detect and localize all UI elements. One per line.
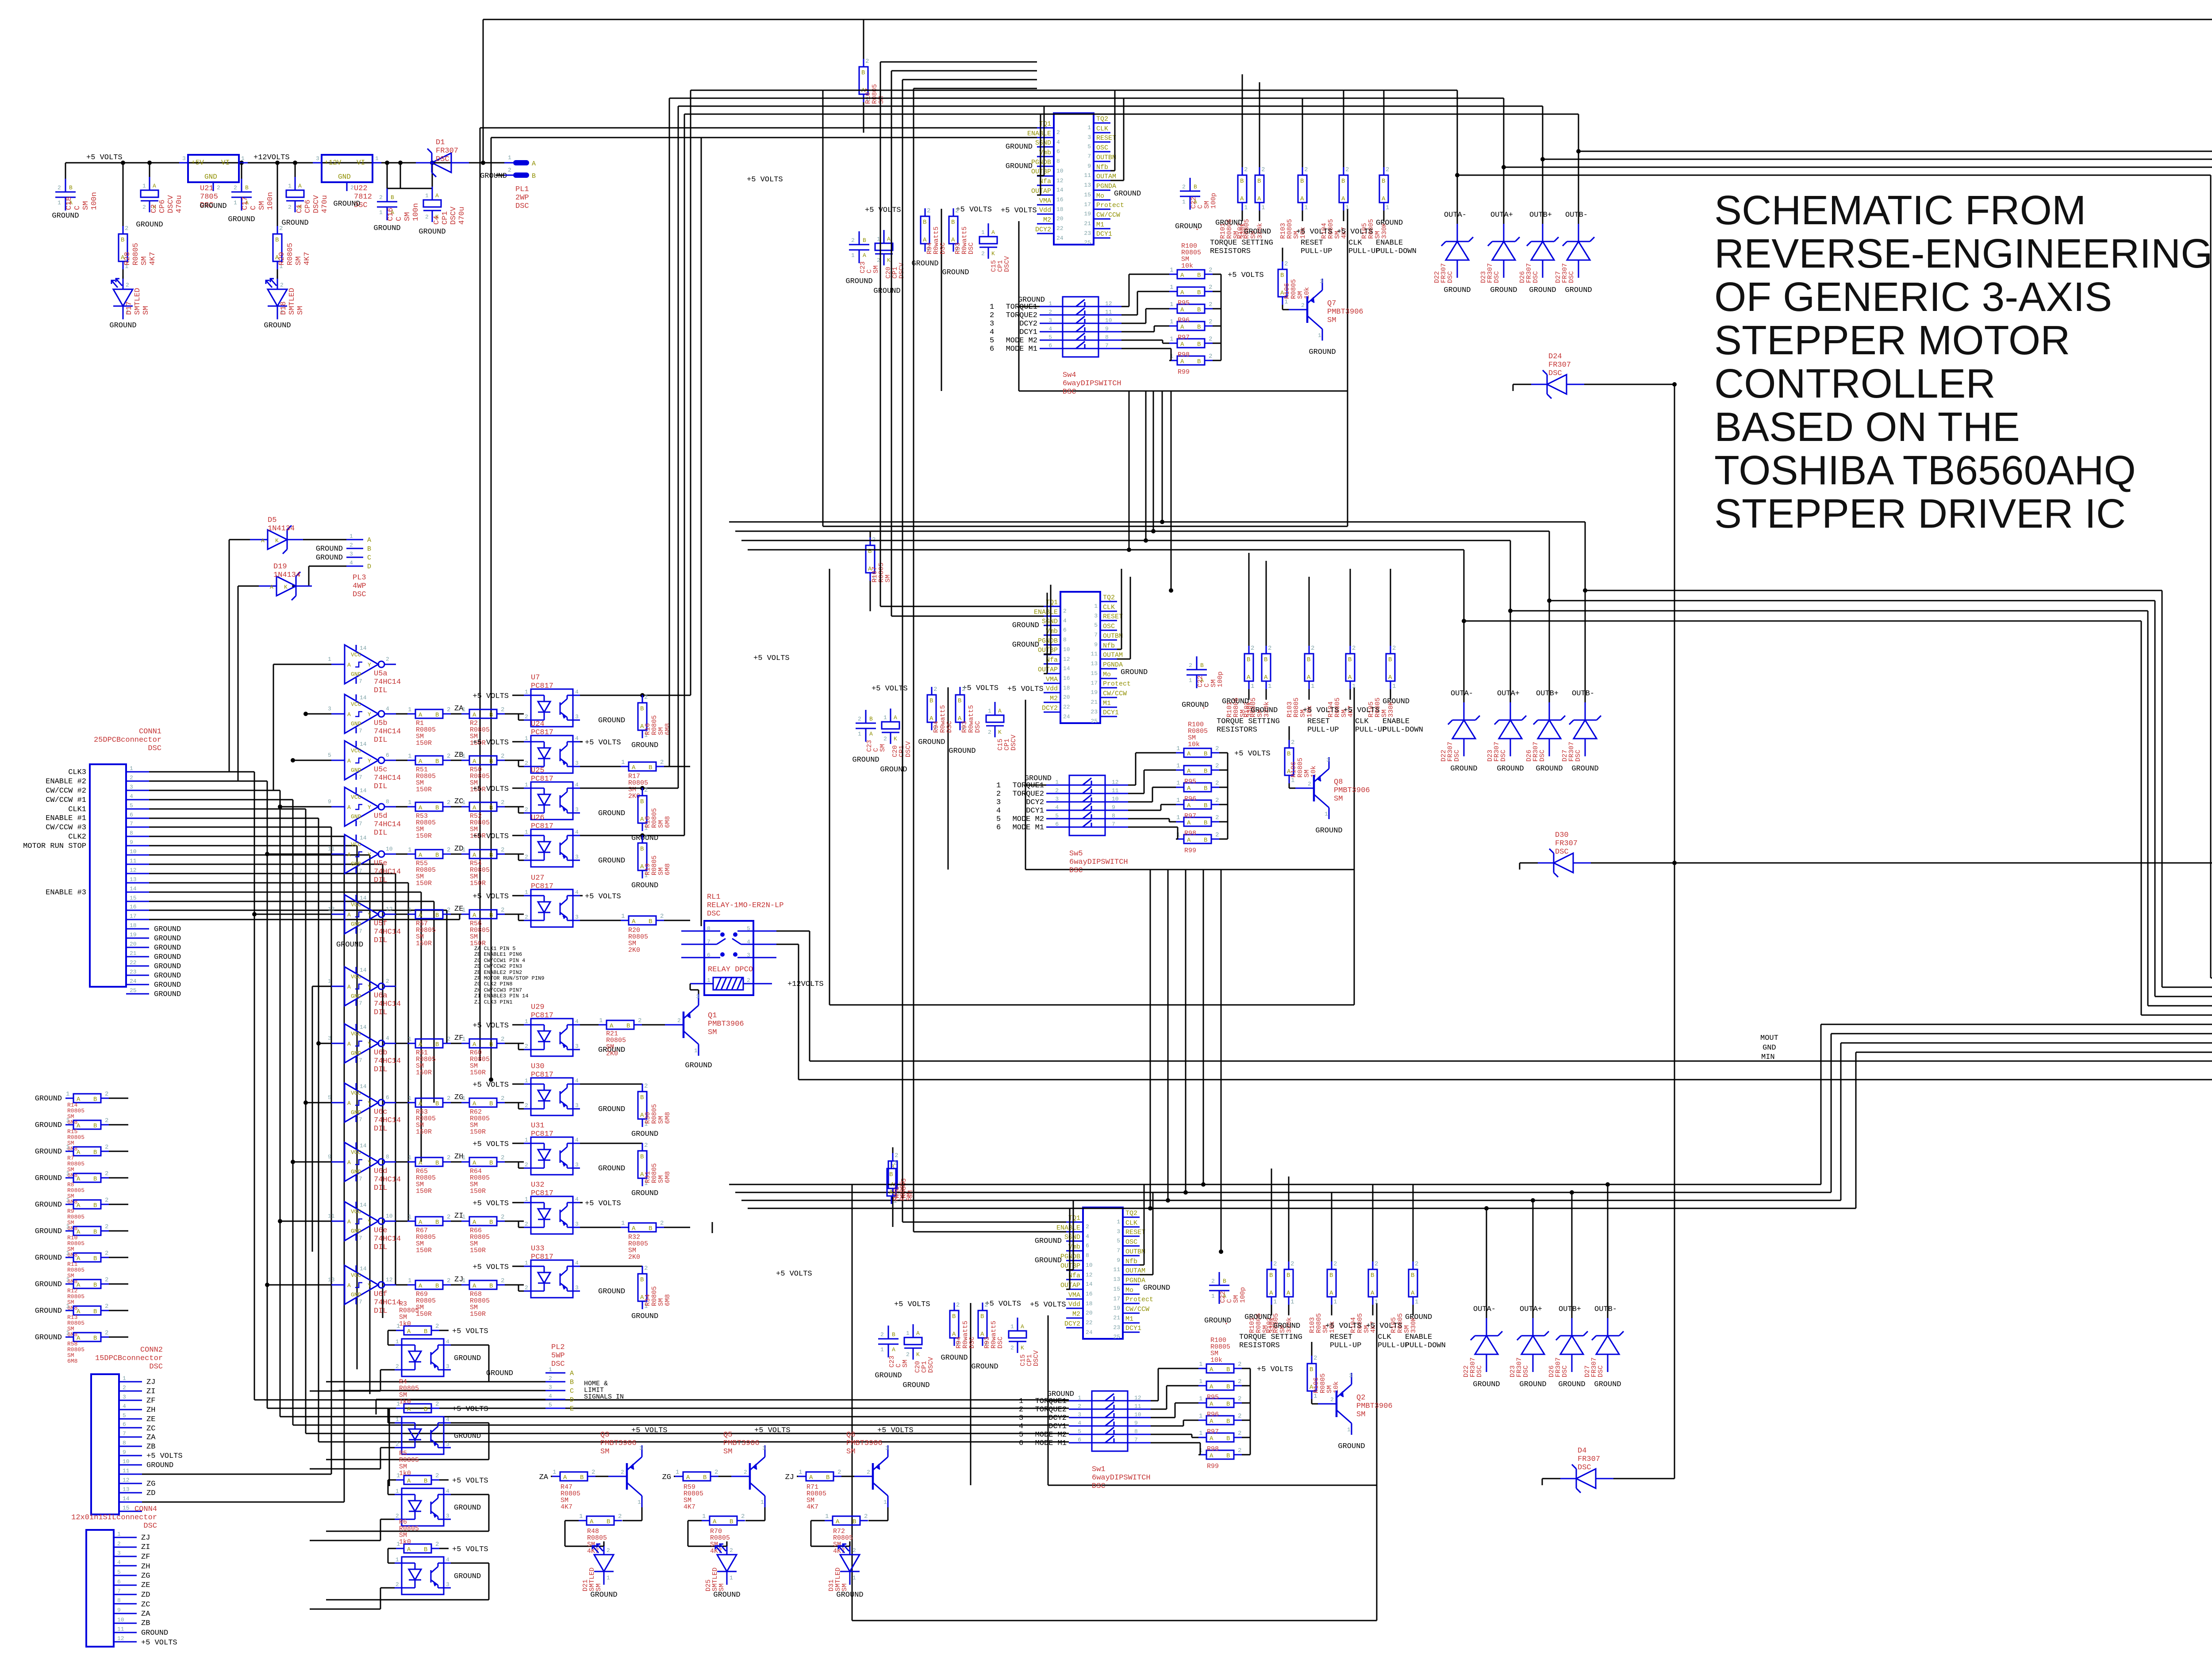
resistor R11 xyxy=(35,1250,128,1262)
label R11 xyxy=(67,1261,84,1285)
net ZB xyxy=(454,751,463,759)
svg-text:DSCV: DSCV xyxy=(1010,735,1018,751)
dip labels a xyxy=(990,296,1045,353)
svg-text:6: 6 xyxy=(990,345,994,353)
svg-text:SM: SM xyxy=(902,1360,909,1368)
svg-text:B: B xyxy=(93,1096,97,1103)
svg-text:4: 4 xyxy=(446,1338,449,1345)
label Swc xyxy=(1092,1465,1151,1491)
svg-text:MIN: MIN xyxy=(1761,1053,1775,1062)
svg-text:GND: GND xyxy=(351,1291,361,1298)
svg-text:13: 13 xyxy=(130,876,137,883)
svg-text:1: 1 xyxy=(58,199,61,206)
label R93b xyxy=(961,705,982,733)
svg-text:GND: GND xyxy=(351,813,361,820)
svg-text:Vdd: Vdd xyxy=(1046,685,1058,693)
svg-text:TQ2: TQ2 xyxy=(1103,594,1115,602)
regulator U21 7805 xyxy=(179,155,248,191)
label R13 xyxy=(67,1314,84,1338)
svg-text:2: 2 xyxy=(396,1363,399,1370)
label R104a xyxy=(1321,219,1348,239)
svg-text:TORQUE SETTING: TORQUE SETTING xyxy=(1217,717,1280,726)
svg-text:8: 8 xyxy=(1112,812,1115,819)
svg-text:1: 1 xyxy=(462,1154,465,1161)
svg-text:11: 11 xyxy=(123,1468,130,1474)
label R102c xyxy=(1266,1313,1293,1333)
net +5V b xyxy=(753,654,908,693)
net +5V U7 xyxy=(472,692,524,701)
net +5V U33 xyxy=(472,1263,524,1272)
svg-text:B: B xyxy=(1382,178,1385,185)
wire block2 outputs xyxy=(729,522,2212,1015)
wire R to opto U26 xyxy=(505,854,524,860)
svg-text:CW/CCW #2: CW/CCW #2 xyxy=(46,787,86,795)
svg-text:Mo: Mo xyxy=(1125,1287,1133,1294)
svg-text:74HC14: 74HC14 xyxy=(374,1000,401,1008)
svg-text:C17: C17 xyxy=(241,196,250,210)
pin numbers U6f xyxy=(328,1276,393,1283)
svg-text:PULL-UP: PULL-UP xyxy=(1301,247,1332,256)
svg-text:A: A xyxy=(1180,324,1184,331)
svg-text:1: 1 xyxy=(1189,677,1192,684)
svg-text:DIL: DIL xyxy=(374,686,388,695)
svg-text:1: 1 xyxy=(621,1220,625,1227)
svg-text:A: A xyxy=(1210,1452,1214,1460)
svg-text:DCY2: DCY2 xyxy=(1042,705,1058,712)
svg-text:GROUND: GROUND xyxy=(154,935,181,943)
label R102b xyxy=(1243,697,1271,717)
svg-text:M1: M1 xyxy=(1125,1315,1133,1323)
svg-text:GROUND: GROUND xyxy=(1376,219,1403,227)
svg-text:B: B xyxy=(1197,307,1201,314)
svg-text:3: 3 xyxy=(117,1550,121,1556)
svg-text:+5 VOLTS: +5 VOLTS xyxy=(472,832,509,841)
svg-text:1: 1 xyxy=(1345,204,1349,211)
svg-text:A: A xyxy=(1180,289,1184,296)
svg-text:PMBT3906: PMBT3906 xyxy=(846,1439,883,1448)
svg-text:7: 7 xyxy=(359,678,362,685)
svg-text:RESET: RESET xyxy=(1103,613,1123,621)
svg-text:Y: Y xyxy=(368,1159,371,1166)
svg-text:C4: C4 xyxy=(433,216,441,225)
svg-text:GND: GND xyxy=(351,1169,361,1175)
svg-text:A: A xyxy=(270,584,273,590)
resistor R70 xyxy=(688,1513,745,1546)
capacitor C4 CP1 xyxy=(423,163,441,222)
svg-text:+5 VOLTS: +5 VOLTS xyxy=(956,206,992,214)
svg-text:DSC: DSC xyxy=(1575,750,1582,762)
label R15 xyxy=(67,1128,84,1152)
svg-text:B: B xyxy=(93,1282,97,1289)
diode D27b xyxy=(1569,702,1601,756)
svg-text:2K0: 2K0 xyxy=(628,1253,640,1261)
svg-text:2: 2 xyxy=(130,774,133,781)
resistor R103c xyxy=(1327,1192,1337,1315)
svg-text:+5 VOLTS: +5 VOLTS xyxy=(585,1199,621,1208)
svg-text:2: 2 xyxy=(1308,781,1311,787)
svg-text:1: 1 xyxy=(66,1170,69,1177)
pin numbers U5b xyxy=(328,705,389,712)
ground D23b xyxy=(1497,765,1524,773)
svg-text:1: 1 xyxy=(880,1346,884,1353)
legend table xyxy=(474,946,544,1005)
label R68 xyxy=(470,1291,490,1318)
svg-text:100n: 100n xyxy=(90,192,99,210)
svg-text:13: 13 xyxy=(328,906,335,912)
svg-text:A: A xyxy=(1286,1290,1290,1297)
svg-text:7: 7 xyxy=(1134,1437,1138,1443)
svg-text:GROUND: GROUND xyxy=(1035,1237,1062,1245)
svg-text:1N4134: 1N4134 xyxy=(273,571,300,579)
ground U33 xyxy=(598,1288,625,1296)
svg-text:14: 14 xyxy=(123,1495,130,1502)
svg-text:R96: R96 xyxy=(1178,317,1190,324)
svg-text:1: 1 xyxy=(408,1154,411,1161)
ground D31 xyxy=(836,1591,863,1599)
svg-text:14: 14 xyxy=(360,967,367,973)
svg-text:A: A xyxy=(419,1041,422,1048)
svg-text:DCY2: DCY2 xyxy=(1035,226,1051,234)
svg-text:2: 2 xyxy=(660,913,664,920)
svg-text:150R: 150R xyxy=(416,940,432,947)
svg-text:B: B xyxy=(435,1041,439,1048)
wire bottom opto 4 xyxy=(310,1563,489,1609)
wire block1 outputs xyxy=(669,90,2212,978)
svg-text:15: 15 xyxy=(1084,192,1091,198)
ground C22a xyxy=(1175,222,1202,231)
wire emitter Q3 xyxy=(622,1507,642,1521)
svg-text:2: 2 xyxy=(217,184,220,191)
svg-text:2: 2 xyxy=(1284,261,1288,268)
svg-text:B: B xyxy=(1200,662,1204,669)
svg-text:10: 10 xyxy=(1086,1262,1093,1268)
svg-text:GROUND: GROUND xyxy=(1251,706,1278,715)
svg-text:CW/CCW #3: CW/CCW #3 xyxy=(46,824,86,832)
diode D24c xyxy=(1560,1464,1613,1493)
svg-text:ZG: ZG xyxy=(146,1480,155,1488)
svg-text:A: A xyxy=(77,1149,81,1156)
svg-text:A: A xyxy=(347,804,351,811)
svg-text:A: A xyxy=(632,764,636,771)
svg-text:24: 24 xyxy=(1086,1329,1093,1336)
svg-text:1: 1 xyxy=(408,1214,411,1221)
svg-text:5: 5 xyxy=(996,815,1001,824)
svg-text:470u: 470u xyxy=(458,207,466,225)
net +5V U30 xyxy=(472,1081,524,1089)
svg-text:Protect: Protect xyxy=(1103,680,1131,688)
svg-text:2: 2 xyxy=(1055,787,1059,794)
svg-text:1: 1 xyxy=(241,155,245,162)
svg-text:1: 1 xyxy=(462,706,465,713)
svg-text:A: A xyxy=(1307,674,1311,681)
svg-text:1: 1 xyxy=(1176,814,1180,821)
svg-text:74HC14: 74HC14 xyxy=(374,1116,401,1125)
svg-text:PMBT3906: PMBT3906 xyxy=(1334,786,1370,795)
label R20 xyxy=(628,927,648,954)
label Q7a xyxy=(1327,299,1363,325)
svg-text:TORQUE2: TORQUE2 xyxy=(1035,1406,1067,1414)
ground C22c xyxy=(1204,1317,1231,1325)
svg-text:5: 5 xyxy=(1078,1428,1081,1435)
wire relay out xyxy=(776,931,810,1080)
svg-text:9: 9 xyxy=(1134,1420,1138,1426)
svg-text:ZF: ZF xyxy=(141,1553,150,1561)
svg-text:11: 11 xyxy=(1091,651,1098,657)
svg-text:B: B xyxy=(640,1094,644,1101)
svg-text:2: 2 xyxy=(105,1223,108,1230)
label R61 xyxy=(416,1049,436,1077)
resistor R103a xyxy=(1298,98,1308,221)
resistor R72 xyxy=(811,1513,868,1546)
svg-text:GROUND: GROUND xyxy=(154,962,181,971)
capacitor C23b xyxy=(856,710,876,742)
svg-text:A: A xyxy=(472,912,476,919)
ground U7 xyxy=(598,717,625,725)
svg-text:100n: 100n xyxy=(266,192,275,210)
ground R34 xyxy=(631,1312,658,1321)
svg-text:ZA: ZA xyxy=(539,1473,549,1482)
svg-text:A: A xyxy=(472,758,476,765)
svg-text:A: A xyxy=(1187,820,1191,827)
net +5V2 c xyxy=(1030,1301,1066,1309)
net OUTA+a xyxy=(1490,211,1513,219)
svg-text:DSCV: DSCV xyxy=(1003,256,1011,272)
svg-text:6M8: 6M8 xyxy=(664,1171,672,1183)
capacitor C18 xyxy=(55,163,76,211)
svg-text:B: B xyxy=(532,172,536,180)
label R104c xyxy=(1350,1313,1377,1333)
svg-text:6M8: 6M8 xyxy=(664,816,672,828)
svg-text:R98: R98 xyxy=(1178,351,1190,359)
svg-text:CONTROLLER: CONTROLLER xyxy=(1714,360,1996,406)
svg-text:4: 4 xyxy=(1078,1420,1081,1426)
svg-text:B: B xyxy=(489,1283,493,1290)
svg-text:GROUND: GROUND xyxy=(35,1334,62,1342)
svg-text:19: 19 xyxy=(130,931,137,938)
svg-text:9: 9 xyxy=(1112,804,1115,811)
svg-text:CW/CCW: CW/CCW xyxy=(1103,690,1127,697)
svg-text:10k: 10k xyxy=(1181,262,1193,270)
svg-text:VCC: VCC xyxy=(351,747,361,754)
svg-text:1: 1 xyxy=(525,1260,528,1266)
svg-text:20: 20 xyxy=(1056,215,1064,222)
label R16 xyxy=(644,715,672,735)
wire opto4 U7 xyxy=(580,90,691,697)
net +5V right U27 xyxy=(580,893,621,901)
label R107b xyxy=(871,563,892,582)
net ZG xyxy=(454,1093,463,1102)
svg-text:5: 5 xyxy=(1117,1238,1120,1244)
svg-text:GROUND: GROUND xyxy=(333,200,360,208)
svg-text:A: A xyxy=(435,192,439,199)
svg-text:3: 3 xyxy=(446,1363,449,1370)
svg-text:A: A xyxy=(640,1294,644,1301)
svg-text:4: 4 xyxy=(1019,1422,1023,1431)
svg-text:Mo: Mo xyxy=(1096,192,1104,200)
svg-text:1: 1 xyxy=(1291,777,1294,784)
svg-text:DSC: DSC xyxy=(1476,1365,1483,1377)
label R7 xyxy=(67,1155,84,1179)
svg-text:6: 6 xyxy=(1019,1439,1023,1448)
svg-text:GROUND: GROUND xyxy=(154,953,181,962)
svg-text:GROUND: GROUND xyxy=(35,1201,62,1209)
label PL3 xyxy=(353,574,366,599)
svg-text:4: 4 xyxy=(575,689,579,695)
label D17 xyxy=(125,288,150,315)
svg-text:7: 7 xyxy=(1112,821,1115,828)
svg-text:B: B xyxy=(1286,1272,1290,1279)
svg-text:2: 2 xyxy=(1182,184,1186,190)
svg-text:OUTB-: OUTB- xyxy=(1594,1305,1617,1314)
svg-text:1: 1 xyxy=(1347,1426,1351,1433)
svg-text:2: 2 xyxy=(933,686,937,693)
svg-text:2: 2 xyxy=(1215,797,1219,804)
svg-text:A: A xyxy=(1180,307,1184,314)
svg-text:2: 2 xyxy=(851,237,855,244)
svg-text:A: A xyxy=(1210,1435,1214,1442)
svg-text:3: 3 xyxy=(575,1102,579,1109)
svg-text:SM: SM xyxy=(906,1193,913,1201)
label D27b xyxy=(1561,742,1582,762)
svg-text:25: 25 xyxy=(1084,239,1091,246)
svg-text:GND: GND xyxy=(351,720,361,727)
svg-text:4: 4 xyxy=(446,1488,449,1495)
svg-text:U29: U29 xyxy=(531,1003,545,1012)
svg-text:4: 4 xyxy=(575,1196,579,1203)
svg-text:B: B xyxy=(1264,656,1267,663)
svg-text:1: 1 xyxy=(676,1469,679,1476)
svg-text:A: A xyxy=(713,1518,717,1525)
svg-text:CW/CCW: CW/CCW xyxy=(1125,1306,1149,1313)
svg-text:A: A xyxy=(419,805,422,812)
svg-text:B: B xyxy=(649,1225,652,1232)
svg-text:D18: D18 xyxy=(280,301,288,315)
svg-text:15: 15 xyxy=(1091,670,1098,677)
label D27a xyxy=(1555,263,1575,283)
svg-text:5: 5 xyxy=(328,752,331,759)
diode D24a xyxy=(1531,370,1584,399)
resistor R10 xyxy=(35,1223,128,1236)
svg-text:U22: U22 xyxy=(354,184,368,193)
svg-text:150R: 150R xyxy=(416,1128,432,1136)
svg-text:A: A xyxy=(1187,751,1191,758)
svg-text:2: 2 xyxy=(956,1302,960,1309)
net ZA Q3 xyxy=(539,1473,549,1482)
svg-text:3: 3 xyxy=(575,1043,579,1050)
resistor R71 xyxy=(797,1469,854,1481)
svg-text:DSC: DSC xyxy=(1597,1365,1605,1377)
label RELAY DPCO xyxy=(708,966,753,974)
svg-text:U30: U30 xyxy=(531,1062,545,1071)
label R104b xyxy=(1327,697,1355,717)
svg-text:2: 2 xyxy=(1238,1430,1241,1437)
svg-text:PC817: PC817 xyxy=(531,882,553,891)
svg-text:3: 3 xyxy=(575,1221,579,1227)
svg-text:+5 VOLTS: +5 VOLTS xyxy=(146,1452,183,1460)
svg-text:M1: M1 xyxy=(1096,221,1104,229)
resistor R4 xyxy=(388,1401,449,1423)
svg-text:2: 2 xyxy=(644,694,648,701)
svg-text:R96: R96 xyxy=(1184,795,1196,803)
svg-text:1: 1 xyxy=(1199,1378,1202,1385)
label U5e xyxy=(374,859,401,885)
svg-text:CLK2: CLK2 xyxy=(68,833,86,841)
svg-text:GROUND: GROUND xyxy=(35,1174,62,1183)
svg-text:3: 3 xyxy=(446,1513,449,1519)
resistor R67 xyxy=(396,1214,451,1226)
svg-text:OUTB+: OUTB+ xyxy=(1536,690,1559,698)
svg-text:C2: C2 xyxy=(150,204,158,213)
svg-text:21: 21 xyxy=(1091,699,1098,705)
resistor R19 xyxy=(638,834,648,879)
svg-text:TORQUE SETTING: TORQUE SETTING xyxy=(1210,239,1273,247)
wire bottom opto 2 xyxy=(310,1423,489,1469)
svg-text:12: 12 xyxy=(1134,1395,1141,1401)
svg-text:CP6: CP6 xyxy=(158,199,167,213)
label U6e xyxy=(374,1226,401,1252)
wire PL2 D xyxy=(376,1399,545,1414)
net OUTB+a xyxy=(1529,211,1552,219)
svg-text:2: 2 xyxy=(1215,832,1219,839)
svg-text:OUTBM: OUTBM xyxy=(1103,632,1123,640)
svg-text:1: 1 xyxy=(981,229,985,236)
svg-text:GROUND: GROUND xyxy=(154,925,181,934)
svg-text:8: 8 xyxy=(123,1440,126,1446)
svg-text:6M8: 6M8 xyxy=(664,723,672,735)
svg-text:12: 12 xyxy=(1086,1272,1093,1278)
ground R93a xyxy=(942,268,969,277)
svg-text:1: 1 xyxy=(1094,603,1098,609)
svg-text:B: B xyxy=(951,219,955,226)
svg-text:8: 8 xyxy=(386,798,389,805)
svg-text:+5 VOLTS: +5 VOLTS xyxy=(747,176,783,184)
wire PL2 B xyxy=(326,1381,545,1383)
svg-text:1: 1 xyxy=(707,977,710,984)
svg-text:9: 9 xyxy=(328,1153,331,1160)
svg-text:A: A xyxy=(640,723,644,730)
svg-text:2: 2 xyxy=(1386,166,1389,173)
svg-text:1: 1 xyxy=(1325,811,1328,817)
svg-text:SM: SM xyxy=(295,257,303,265)
resistor R62 xyxy=(451,1095,524,1108)
svg-text:1: 1 xyxy=(525,782,528,788)
ground C22b xyxy=(1182,701,1209,709)
resistor R104b xyxy=(1346,569,1356,700)
svg-text:74HC14: 74HC14 xyxy=(374,728,401,736)
svg-text:2: 2 xyxy=(644,834,648,841)
svg-text:U21: U21 xyxy=(200,184,214,193)
svg-text:3: 3 xyxy=(575,914,579,920)
svg-text:1: 1 xyxy=(1176,780,1180,787)
svg-text:GROUND: GROUND xyxy=(454,1572,481,1581)
svg-text:Nfb: Nfb xyxy=(1096,164,1108,171)
svg-text:2: 2 xyxy=(396,1513,399,1519)
net +5V Q3 xyxy=(631,1426,668,1435)
label R94a xyxy=(926,226,947,254)
svg-text:3: 3 xyxy=(696,993,699,1000)
svg-text:1: 1 xyxy=(66,1276,69,1284)
label D22c xyxy=(1463,1357,1483,1377)
svg-text:CLK: CLK xyxy=(1125,1219,1137,1227)
svg-text:B: B xyxy=(1310,1366,1313,1373)
svg-text:GROUND: GROUND xyxy=(631,741,658,750)
svg-text:2: 2 xyxy=(105,1117,108,1124)
ground C1 xyxy=(281,219,308,227)
svg-text:U32: U32 xyxy=(531,1181,545,1189)
resistor R34 xyxy=(638,1265,648,1310)
svg-text:DCY2: DCY2 xyxy=(1019,320,1037,328)
svg-text:2: 2 xyxy=(867,1469,870,1475)
